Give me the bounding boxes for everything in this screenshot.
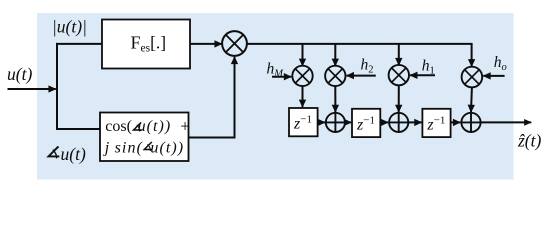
- delay block D3 z^-1: [422, 109, 450, 137]
- wire M3 to adder A2: [398, 85, 400, 112]
- block U1 F_es[.] magnitude function: [102, 20, 190, 69]
- wire output arrow: [481, 121, 532, 123]
- wire M2 to adder A1: [334, 86, 336, 112]
- wire M1 to delay D1: [302, 86, 304, 107]
- delay block D2 z^-1: [352, 109, 380, 137]
- svg-text:u(t)): u(t)): [138, 118, 172, 135]
- block U2 phase exponential cos + j sin: [100, 113, 190, 162]
- wire tap 3 down: [398, 44, 400, 65]
- svg-text:j: j: [103, 140, 110, 157]
- wire to phase box: [56, 128, 100, 130]
- svg-text:u(t)): u(t)): [150, 140, 184, 157]
- wire splitter vertical: [56, 43, 58, 130]
- adder A3 (oplus): [461, 113, 480, 132]
- svg-text:ẑ(t): ẑ(t): [517, 131, 542, 151]
- node angle u(t) label: [46, 144, 85, 164]
- svg-text:u(t): u(t): [7, 64, 32, 84]
- wire D3 to adder A3: [451, 121, 461, 123]
- multiplier M3 tap h_1 (otimes): [389, 65, 409, 85]
- wire tap 1 down: [302, 44, 304, 66]
- multiplier M0 main (otimes): [222, 31, 247, 56]
- wire A2 to delay D3: [408, 121, 421, 123]
- wire to magnitude box: [56, 43, 102, 45]
- wire top bus: [247, 44, 472, 45]
- wire h_2 into multiplier M2: [347, 75, 376, 77]
- svg-text:|u(t)|: |u(t)|: [52, 17, 87, 37]
- wire h_o into multiplier M4: [483, 75, 504, 77]
- adder A2 (oplus): [389, 113, 408, 132]
- wire input arrow: [8, 88, 56, 90]
- delay block D1 z^-1: [289, 108, 318, 136]
- wire D1 to adder A1: [318, 121, 325, 123]
- wire D2 to adder A2: [380, 121, 388, 123]
- wire tap 4 down: [471, 44, 473, 67]
- wire h_1 into multiplier M3: [410, 74, 435, 76]
- svg-text:+: +: [180, 116, 190, 135]
- svg-text:sin(: sin(: [115, 140, 144, 157]
- svg-text:cos(: cos(: [105, 118, 132, 135]
- wire A1 to delay D2: [345, 121, 351, 123]
- wire F_es output to multiplier: [190, 43, 222, 45]
- multiplier M2 tap h_2 (otimes): [325, 66, 345, 86]
- wire h_M into multiplier M1: [272, 76, 291, 78]
- wire M4 to adder A3: [470, 87, 473, 112]
- svg-text:u(t): u(t): [61, 144, 86, 164]
- wire phase box to multiplier: [189, 57, 235, 138]
- multiplier M4 tap h_o (otimes): [462, 67, 483, 88]
- adder A1 (oplus): [326, 113, 345, 132]
- multiplier M1 tap h_M (otimes): [292, 66, 312, 86]
- wire tap 2 down: [334, 44, 336, 66]
